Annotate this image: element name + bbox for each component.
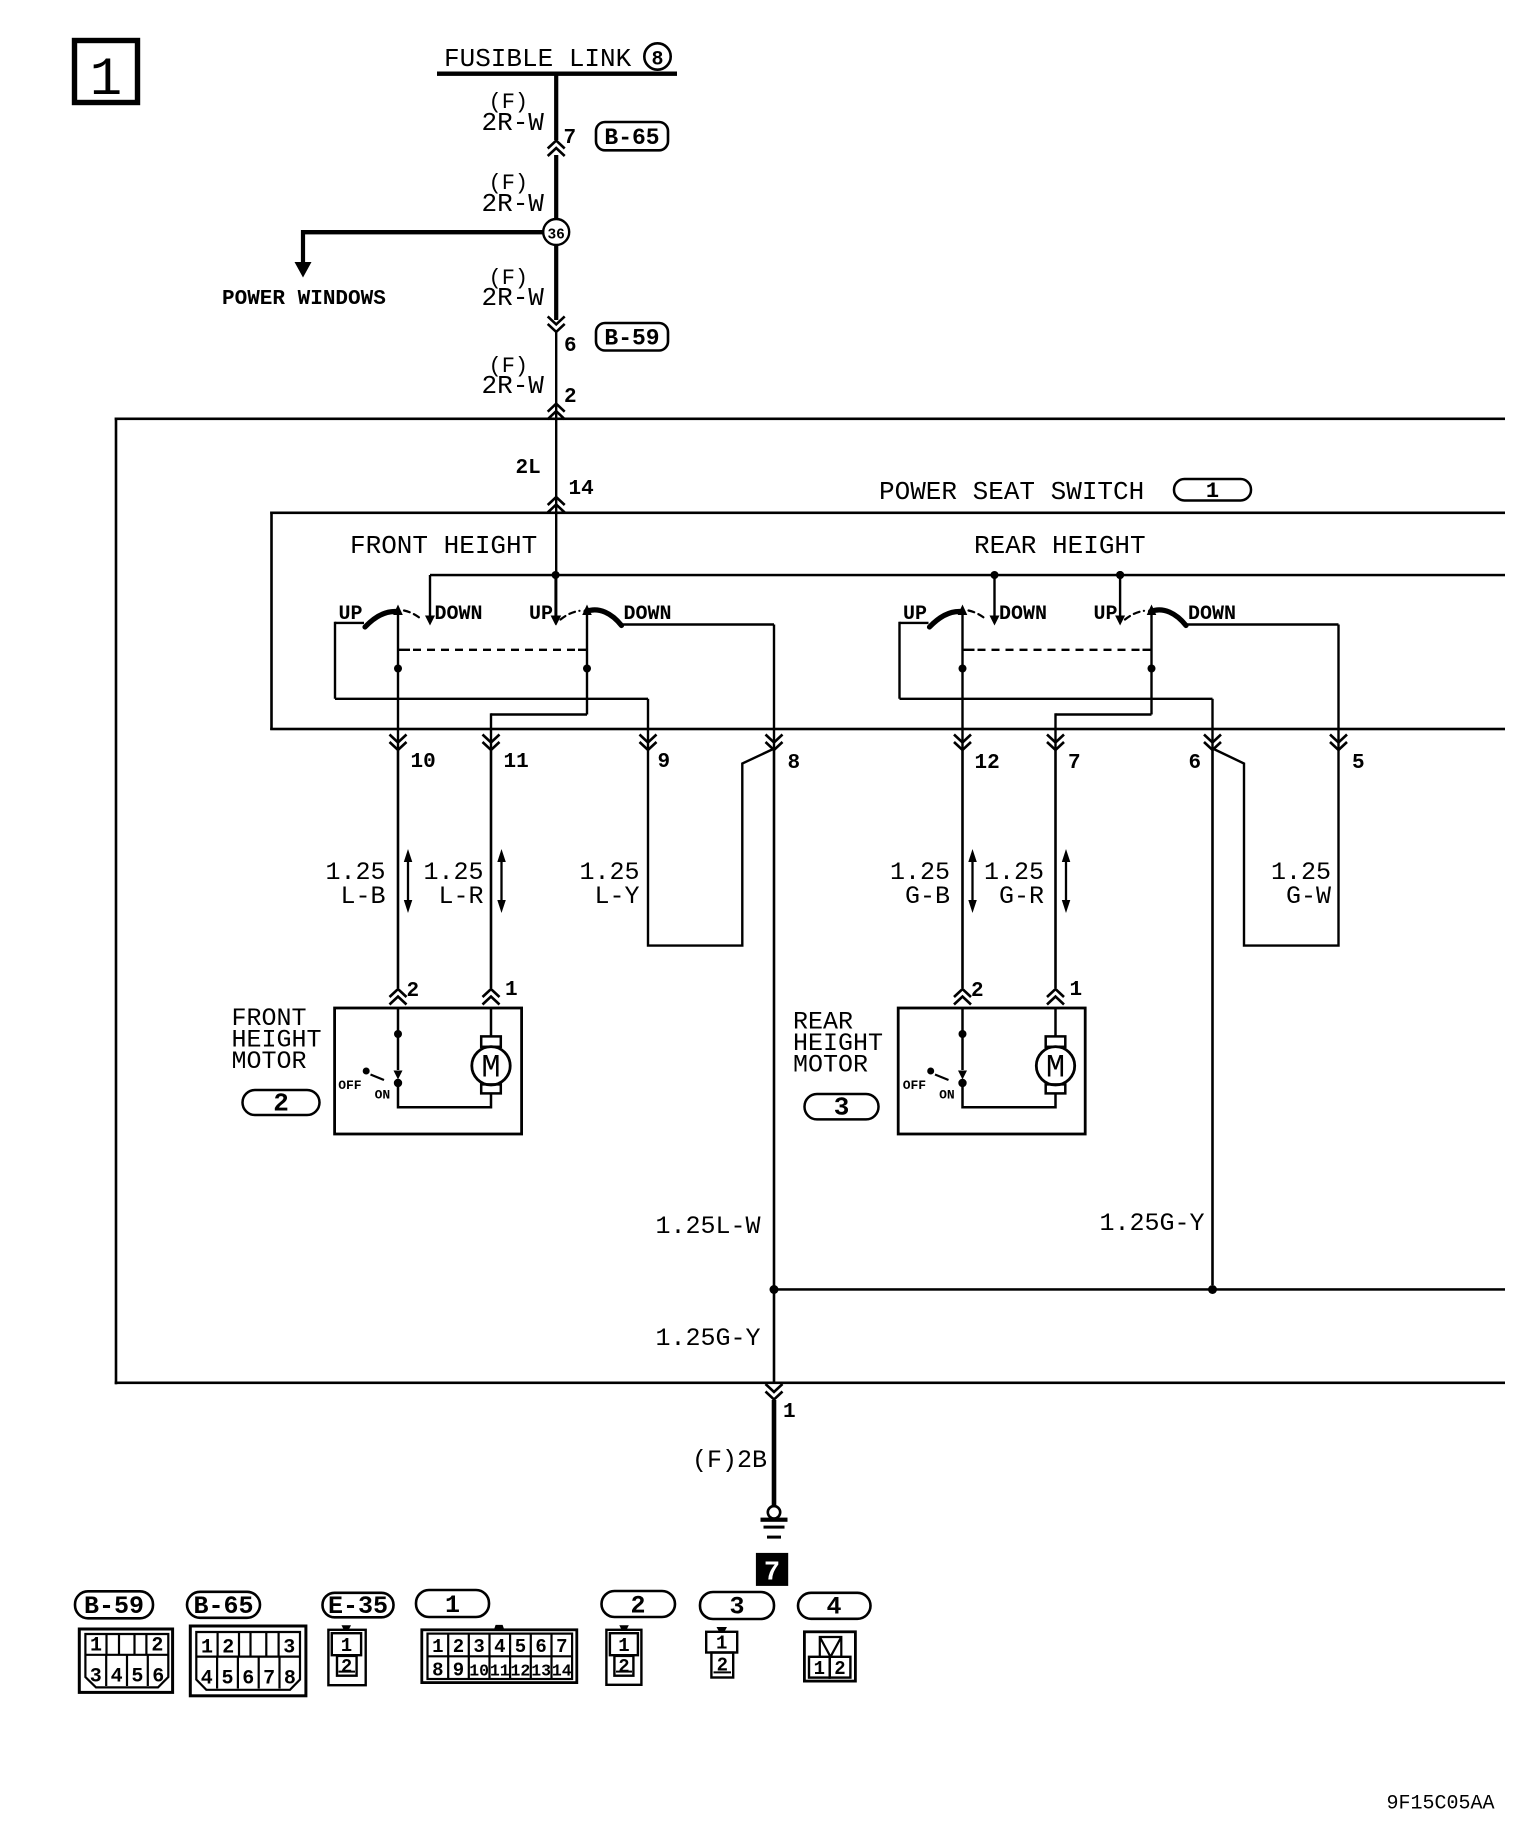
svg-text:POWER WINDOWS: POWER WINDOWS (222, 288, 386, 311)
svg-text:2: 2 (151, 1635, 163, 1658)
svg-text:OFF: OFF (338, 1078, 362, 1093)
svg-text:ON: ON (939, 1088, 955, 1103)
svg-text:2: 2 (564, 386, 577, 409)
svg-text:1: 1 (90, 50, 122, 111)
svg-text:6: 6 (564, 335, 577, 358)
svg-text:DOWN: DOWN (999, 603, 1047, 626)
svg-text:ON: ON (375, 1088, 391, 1103)
svg-text:G-W: G-W (1286, 882, 1331, 911)
svg-text:6: 6 (535, 1636, 546, 1658)
svg-text:DOWN: DOWN (435, 603, 483, 626)
svg-text:2: 2 (971, 980, 984, 1003)
svg-text:3: 3 (90, 1666, 102, 1689)
svg-text:1.25G-Y: 1.25G-Y (656, 1324, 761, 1353)
svg-text:3: 3 (473, 1636, 484, 1658)
svg-text:3: 3 (283, 1637, 295, 1660)
svg-text:1: 1 (201, 1637, 213, 1660)
svg-text:2: 2 (834, 1658, 845, 1680)
svg-text:G-B: G-B (905, 882, 950, 911)
svg-text:5: 5 (131, 1666, 143, 1689)
svg-text:12: 12 (510, 1662, 530, 1681)
svg-text:8: 8 (788, 752, 801, 775)
svg-text:B-59: B-59 (604, 326, 659, 352)
svg-text:1: 1 (445, 1591, 460, 1620)
svg-text:5: 5 (515, 1636, 526, 1658)
svg-text:36: 36 (547, 228, 564, 244)
svg-text:8: 8 (432, 1660, 443, 1682)
svg-text:MOTOR: MOTOR (232, 1047, 307, 1076)
svg-text:1: 1 (1206, 479, 1219, 504)
svg-text:POWER SEAT SWITCH: POWER SEAT SWITCH (879, 477, 1144, 507)
svg-text:13: 13 (531, 1662, 551, 1681)
svg-text:1: 1 (814, 1658, 825, 1680)
svg-text:6: 6 (1189, 752, 1202, 775)
svg-text:L-Y: L-Y (595, 882, 640, 911)
svg-text:MOTOR: MOTOR (793, 1051, 868, 1080)
svg-text:7: 7 (556, 1636, 567, 1658)
svg-text:14: 14 (552, 1662, 572, 1681)
svg-text:M: M (1046, 1050, 1065, 1087)
svg-text:8: 8 (651, 49, 663, 72)
svg-text:2: 2 (273, 1089, 289, 1119)
svg-text:5: 5 (1352, 752, 1365, 775)
svg-text:1: 1 (1070, 979, 1083, 1002)
svg-text:M: M (481, 1050, 500, 1087)
svg-text:L-R: L-R (439, 882, 484, 911)
svg-text:2R-W: 2R-W (482, 108, 545, 138)
svg-text:10: 10 (411, 751, 436, 774)
svg-text:UP: UP (529, 603, 553, 626)
svg-text:2: 2 (407, 980, 420, 1003)
svg-text:2: 2 (618, 1656, 629, 1678)
svg-text:6: 6 (242, 1668, 254, 1691)
svg-text:UP: UP (1093, 603, 1117, 626)
svg-text:1: 1 (341, 1635, 352, 1657)
svg-text:4: 4 (826, 1593, 841, 1622)
svg-text:DOWN: DOWN (624, 603, 672, 626)
svg-text:2: 2 (222, 1637, 234, 1660)
svg-text:B-59: B-59 (84, 1592, 144, 1621)
svg-text:1.25G-Y: 1.25G-Y (1100, 1209, 1205, 1238)
svg-text:3: 3 (834, 1093, 850, 1123)
svg-text:1: 1 (618, 1635, 629, 1657)
svg-text:1: 1 (505, 979, 518, 1002)
svg-text:OFF: OFF (903, 1078, 927, 1093)
svg-text:2L: 2L (516, 457, 541, 480)
svg-text:7: 7 (263, 1668, 275, 1691)
svg-text:L-B: L-B (341, 882, 386, 911)
svg-text:(F)2B: (F)2B (692, 1446, 767, 1475)
svg-text:7: 7 (564, 127, 577, 150)
svg-text:9: 9 (453, 1660, 464, 1682)
svg-text:4: 4 (111, 1666, 123, 1689)
svg-text:B-65: B-65 (193, 1592, 253, 1621)
svg-text:9F15C05AA: 9F15C05AA (1387, 1793, 1495, 1816)
svg-text:2: 2 (341, 1656, 352, 1678)
svg-text:DOWN: DOWN (1188, 603, 1236, 626)
svg-text:9: 9 (658, 751, 671, 774)
svg-text:E-35: E-35 (328, 1592, 388, 1621)
svg-text:5: 5 (221, 1668, 233, 1691)
svg-text:G-R: G-R (999, 882, 1044, 911)
svg-text:B-65: B-65 (604, 125, 659, 151)
svg-text:10: 10 (469, 1662, 489, 1681)
svg-text:1: 1 (432, 1636, 443, 1658)
svg-text:6: 6 (152, 1666, 164, 1689)
svg-text:1: 1 (90, 1635, 102, 1658)
svg-text:11: 11 (504, 751, 529, 774)
svg-text:2: 2 (630, 1592, 645, 1621)
svg-text:4: 4 (201, 1668, 213, 1691)
svg-text:FRONT HEIGHT: FRONT HEIGHT (350, 531, 537, 561)
svg-text:11: 11 (490, 1662, 510, 1681)
svg-text:1.25L-W: 1.25L-W (656, 1212, 761, 1241)
svg-text:7: 7 (764, 1559, 780, 1589)
svg-text:3: 3 (729, 1593, 744, 1622)
svg-text:8: 8 (284, 1668, 296, 1691)
svg-text:7: 7 (1068, 752, 1081, 775)
svg-text:4: 4 (494, 1636, 505, 1658)
svg-text:2R-W: 2R-W (482, 371, 545, 401)
svg-text:2R-W: 2R-W (482, 189, 545, 219)
svg-text:2R-W: 2R-W (482, 283, 545, 313)
svg-text:2: 2 (453, 1636, 464, 1658)
svg-text:12: 12 (975, 752, 1000, 775)
svg-text:14: 14 (569, 478, 594, 501)
svg-text:REAR HEIGHT: REAR HEIGHT (974, 531, 1146, 561)
svg-text:1: 1 (783, 1401, 796, 1424)
svg-text:FUSIBLE LINK: FUSIBLE LINK (444, 44, 632, 74)
